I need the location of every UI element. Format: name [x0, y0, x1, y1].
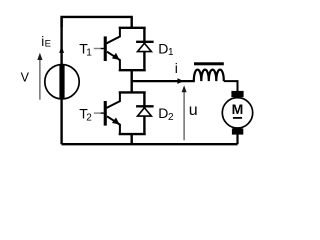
current arrow iE on left wire	[59, 46, 64, 53]
inductor L (iron core bar)	[194, 62, 224, 65]
wire T1 cell bottom bar	[119, 69, 146, 71]
svg-text:u: u	[189, 102, 198, 119]
wire T1 cell top bar	[119, 27, 146, 29]
wire bottom rail	[62, 143, 238, 145]
label iE	[41, 34, 51, 49]
svg-text:1: 1	[168, 47, 174, 58]
wire bottom branch	[130, 134, 132, 144]
label D1	[158, 41, 174, 59]
motor M	[222, 91, 252, 135]
voltage source V (circle with bar)	[45, 64, 79, 99]
svg-text:1: 1	[86, 48, 92, 59]
svg-text:2: 2	[86, 113, 92, 124]
diode D2	[136, 92, 154, 134]
diode D1	[136, 28, 154, 70]
transistor T2	[100, 92, 120, 134]
svg-text:E: E	[45, 38, 51, 49]
wire motor to bottom rail	[236, 135, 238, 145]
label u	[189, 102, 198, 119]
label lead T2 (gray)	[94, 112, 101, 114]
wire top rail	[62, 17, 132, 28]
transistor T1	[100, 28, 120, 70]
svg-text:2: 2	[168, 112, 174, 123]
arrow V (gray voltage arrow)	[37, 53, 42, 100]
wire mid branch (output node)	[130, 70, 132, 92]
wire left branch (source branch)	[60, 17, 62, 144]
inductor L (coil)	[194, 70, 224, 81]
label V	[21, 71, 30, 85]
label T1	[79, 40, 92, 58]
svg-text:D: D	[158, 41, 168, 57]
wire T2 cell top bar	[119, 91, 146, 93]
svg-text:V: V	[21, 71, 30, 85]
label D2	[158, 105, 174, 123]
svg-text:M: M	[232, 101, 244, 117]
label lead T1 (gray)	[94, 48, 101, 50]
svg-text:D: D	[158, 105, 168, 121]
label T2	[79, 105, 92, 123]
wire inductor to motor	[224, 81, 238, 91]
wire output to inductor	[132, 80, 195, 82]
current arrow i on output wire	[177, 78, 183, 84]
wire T2 cell bottom bar	[119, 133, 146, 135]
svg-text:i: i	[175, 60, 178, 76]
label i (gray)	[175, 60, 178, 76]
arrow u (gray voltage arrow)	[182, 85, 187, 140]
